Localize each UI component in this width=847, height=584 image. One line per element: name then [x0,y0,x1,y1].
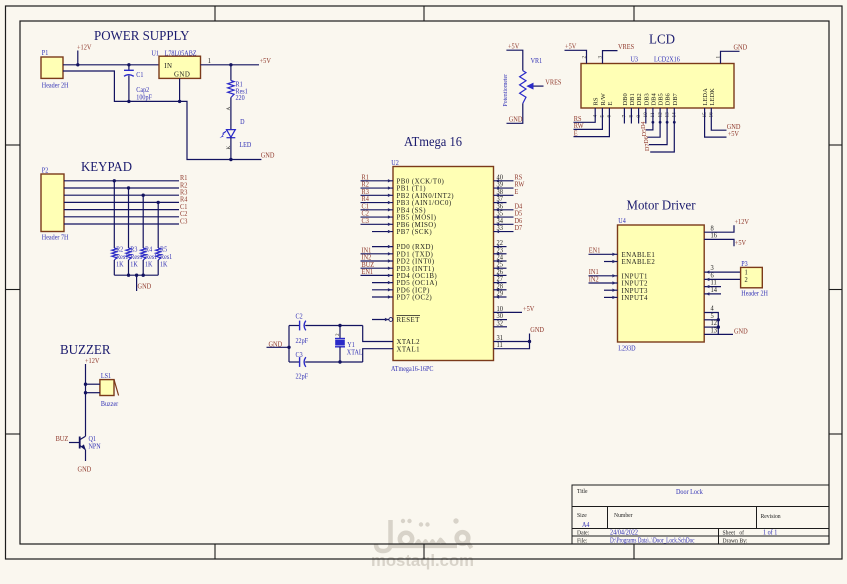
wire pin5 gnd [704,319,718,321]
svg-text:PB6 (MISO): PB6 (MISO) [397,222,437,229]
title block grid [572,485,829,544]
wire +5V to VR1 [506,50,522,70]
svg-text:LCD: LCD [649,33,675,48]
capacitor C3 [300,357,306,367]
svg-text:C3: C3 [362,218,370,225]
svg-text:E: E [515,189,519,196]
wire net R4 to pin PB3 [361,202,394,204]
wire pin 31 [494,341,530,343]
regulator U1 body [159,56,201,78]
svg-text:GND: GND [733,44,747,51]
wire pin 34 net D6 [494,223,514,225]
svg-text:GND: GND [261,152,275,159]
svg-text:U4: U4 [618,218,626,226]
svg-text:+12V: +12V [735,218,750,225]
svg-text:D:\Programs Data\..\Door_Lock.: D:\Programs Data\..\Door_Lock.SchDoc [610,537,695,544]
wire to resistor R5 [157,202,159,248]
pin arrow 23 [496,252,500,255]
wire keypad C3 [64,223,179,225]
svg-text:31: 31 [496,335,502,342]
svg-text:+12V: +12V [85,357,100,364]
pin arrow 37 [496,201,500,204]
svg-text:11: 11 [710,280,716,287]
svg-text:RESET: RESET [397,317,421,324]
wire D7 [650,108,674,152]
pin arrow INPUT4 [612,296,616,299]
wire net BUZ to pin PD3 [361,267,394,269]
pin arrow PD1 [388,252,392,255]
svg-text:NPN: NPN [89,443,101,451]
junction LS1 pin2 [84,391,87,394]
pin arrow INPUT1 [612,274,616,277]
wire R1 to LED [230,98,232,130]
wire E [574,108,610,137]
svg-text:+12V: +12V [77,44,92,51]
svg-text:EN1: EN1 [589,247,601,254]
wire VR1 to GND [507,103,523,123]
wire +12V drop [77,51,79,65]
svg-text:Cap2: Cap2 [136,87,149,95]
wire BUZ to Q1 base [69,442,80,444]
svg-text:10: 10 [496,306,503,313]
connector P2 [41,174,64,232]
svg-text:C2: C2 [296,313,303,321]
pin stub PD5 [372,282,393,284]
pin stub 22 [494,246,507,248]
junction keypad R4 [157,201,160,204]
svg-text:16: 16 [710,232,717,239]
svg-text:Drawn By:: Drawn By: [723,538,748,544]
pin stub PD0 [372,246,393,248]
junction gnd pin12 [717,325,720,328]
svg-text:U1: U1 [152,50,159,58]
svg-text:GND: GND [530,327,544,334]
svg-text:Sheet of: Sheet of [723,529,745,536]
wire resistor R2 to bus [113,260,115,275]
svg-text:ATmega16-16PC: ATmega16-16PC [391,366,434,374]
junction U1 GND [178,100,181,103]
pin arrow 36 [496,208,500,211]
wire cap bus vertical [288,326,290,363]
svg-text:+5V: +5V [260,58,271,65]
svg-text:13: 13 [710,327,717,334]
svg-text:GND: GND [509,116,523,123]
wire P1 pin1 to U1 IN [63,64,159,66]
pin arrow 22 [496,245,500,248]
svg-text:DB3: DB3 [643,93,650,105]
pin stub 29 [494,296,507,298]
pin arrow PB6 [388,223,392,226]
wire +5V to LCD pin2 [565,50,587,63]
pin arrow PD4 [388,274,392,277]
svg-text:DB2: DB2 [636,93,643,105]
wire LEDK to GND [711,108,726,130]
svg-text:BUZ: BUZ [56,435,69,442]
svg-text:Q1: Q1 [89,436,96,444]
transistor Q1 [80,436,86,450]
pin arrow 28 [496,288,500,291]
capacitor C1 [124,65,134,102]
pin arrow 29 [496,295,500,298]
svg-text:INPUT1: INPUT1 [622,273,649,280]
svg-text:2: 2 [744,277,747,284]
pin stub PB7 [372,231,393,233]
svg-text:ATmega 16: ATmega 16 [404,135,462,150]
wire net R1 to pin PB0 [361,180,394,182]
junction Y1 top [338,324,341,327]
svg-text:Date:: Date: [577,530,590,536]
svg-text:GND: GND [78,466,92,473]
pin stub DB2 [638,108,640,124]
svg-text:D7: D7 [515,225,523,232]
svg-text:PD7 (OC2): PD7 (OC2) [397,295,433,302]
pin stub 27 [494,282,507,284]
pin arrow PD0 [388,245,392,248]
junction bus R4 [142,274,145,277]
svg-text:PD3 (INT1): PD3 (INT1) [397,266,435,273]
svg-text:GND: GND [138,283,152,290]
wire RS [574,108,596,122]
wire net C3 to pin PB6 [361,223,394,225]
wire net IN1 to INPUT1 [589,275,618,277]
wire D5 [647,108,660,137]
pin arrow 40 [496,179,500,182]
wire pin 11 to GND [494,334,530,349]
svg-text:RS: RS [593,97,600,105]
junction LS1 pin1 [84,383,87,386]
wire LED to GND [230,138,232,160]
pin arrow PB3 [388,201,392,204]
svg-text:Potentiometer: Potentiometer [503,74,509,107]
wire D4 [646,108,653,130]
svg-text:C1: C1 [136,72,143,80]
pin arrow 35 [496,215,500,218]
wire pin3 to P3 [704,271,740,273]
svg-text:1K: 1K [130,261,138,269]
pin stub 28 [494,289,507,291]
svg-text:+5V: +5V [508,43,519,50]
svg-text:PB5 (MOSI): PB5 (MOSI) [397,215,437,222]
wire Y1 top lead [339,326,341,339]
connector P3 [741,267,763,287]
wire to C3 [289,361,300,363]
pin stub INPUT3 [604,289,618,291]
svg-text:E: E [607,102,614,106]
pin arrow 27 [496,281,500,284]
wire resistor R4 to bus [142,260,144,275]
wire keypad R2 [64,187,179,189]
resistor R2 [112,248,117,260]
svg-text:Revision: Revision [761,514,781,520]
svg-text:Buzzer: Buzzer [101,400,119,408]
junction keypad R2 [127,186,130,189]
svg-text:PB1 (T1): PB1 (T1) [397,186,426,193]
svg-text:ENABLE2: ENABLE2 [622,259,656,266]
pin arrow 26 [496,274,500,277]
pin arrow PD7 [388,295,392,298]
svg-text:1: 1 [744,269,747,276]
svg-text:22pF: 22pF [296,373,309,381]
svg-text:DB4: DB4 [650,92,657,105]
wire pin8 to +12V [704,225,734,232]
pin arrow INPUT3 [612,289,616,292]
resistor R1 [228,81,234,98]
svg-text:E: E [574,130,578,137]
pin arrow PB1 [388,186,392,189]
pin arrow U4 right [706,270,710,273]
junction D7 stub [673,121,676,124]
capacitor C2 [300,321,306,331]
svg-text:P1: P1 [42,50,48,58]
wire to resistor R3 [128,188,130,248]
svg-text:mostaql.com: mostaql.com [371,551,474,570]
pin arrow RESET [385,318,389,321]
microcontroller U2 body [393,167,494,361]
pin arrow 24 [496,259,500,262]
pin arrow PB4 [388,208,392,211]
wire U1 out to +5V [201,64,260,66]
svg-text:D4: D4 [641,122,647,129]
wire resistor R3 to bus [128,260,130,275]
svg-text:GND: GND [174,72,190,79]
svg-text:D: D [240,119,245,127]
svg-text:PB2 (AIN0/INT2): PB2 (AIN0/INT2) [397,193,454,200]
svg-text:LED: LED [239,141,251,149]
junction D4 stub [652,121,655,124]
wire pin12 gnd [704,326,718,328]
pin arrow INPUT2 [612,281,616,284]
svg-text:+5V: +5V [523,306,534,313]
wire net IN1 to pin PD1 [361,253,394,255]
wire net EN1 to ENABLE1 [589,253,618,255]
pin stub 25 [494,267,507,269]
svg-text:U3: U3 [630,56,638,64]
pin arrow PB2 [388,194,392,197]
svg-text:D5: D5 [642,129,648,136]
svg-text:+5V: +5V [735,240,746,247]
pin stub ENABLE2 [604,261,618,263]
svg-text:L293D: L293D [618,345,635,353]
svg-text:P3: P3 [741,260,748,268]
svg-text:Header 7H: Header 7H [42,234,69,242]
wire pin 35 net D5 [494,216,514,218]
svg-text:PB0 (XCK/T0): PB0 (XCK/T0) [397,178,445,185]
wire LS1 pin1 [86,383,100,385]
svg-text:PD5 (OC1A): PD5 (OC1A) [397,280,438,287]
svg-text:Size: Size [577,513,587,519]
pin arrow U4 right [706,292,710,295]
pin stub INPUT4 [604,296,618,298]
pin stub RESET [372,319,389,321]
pin arrow 38 [496,194,500,197]
wire C2 to XTAL2 branch [305,325,363,327]
svg-text:PB7 (SCK): PB7 (SCK) [397,229,433,236]
svg-text:U2: U2 [391,160,398,168]
pin arrow 25 [496,267,500,270]
wire D6 [649,108,667,145]
wire keypad R4 [64,201,179,203]
svg-text:3: 3 [597,56,603,59]
resistor R4 [141,248,146,260]
svg-text:D6: D6 [644,136,650,143]
svg-text:POWER SUPPLY: POWER SUPPLY [94,29,190,44]
svg-text:Header 2H: Header 2H [42,82,69,90]
wire to C2 [289,325,300,327]
svg-text:BUZZER: BUZZER [60,343,111,358]
wire pin 39 net RW [494,187,514,189]
wire to R1 [230,65,232,81]
crystal Y1 [335,339,345,347]
pin stub 14 [704,293,721,295]
pin arrow U4 right [706,285,710,288]
wire pin16 to +5V [704,239,734,246]
wire C3 to XTAL1 branch [305,361,363,363]
pin stub 30 [494,319,508,321]
svg-text:2: 2 [581,56,587,59]
pin arrow ENABLE1 [612,253,616,256]
svg-text:GND: GND [734,328,748,335]
svg-text:KEYPAD: KEYPAD [81,160,132,175]
svg-text:XTAL: XTAL [347,349,363,357]
svg-text:Header 2H: Header 2H [741,290,768,298]
junction D5 stub [659,121,662,124]
wire net IN2 to INPUT2 [589,282,618,284]
svg-text:Motor Driver: Motor Driver [627,199,696,214]
svg-text:L78L05ABZ: L78L05ABZ [165,50,197,58]
wire RW [574,108,603,129]
svg-text:D7: D7 [645,144,651,151]
wire keypad R1 [64,180,179,182]
junction Y1 bottom [338,360,341,363]
wire to resistor R2 [113,181,115,248]
svg-text:PD2 (INT0): PD2 (INT0) [397,259,435,266]
buzzer LS1 diagonal [114,380,119,396]
pin stub PD7 [372,296,393,298]
svg-text:ENABLE1: ENABLE1 [622,252,656,259]
junction C1 top [127,63,130,66]
svg-text:DB7: DB7 [672,92,679,105]
VR1 wiper arrow [526,83,543,90]
svg-text:100pF: 100pF [136,94,152,102]
connector P1 [41,57,63,78]
svg-text:+5V: +5V [565,43,576,50]
buzzer LS1 body [100,380,114,396]
svg-text:Number: Number [614,513,633,519]
svg-text:11: 11 [496,342,502,349]
wire net IN2 to pin PD2 [361,260,394,262]
svg-text:24/04/2022: 24/04/2022 [610,529,638,536]
svg-text:Title: Title [577,489,588,495]
wire net C1 to pin PB4 [361,209,394,211]
pin arrow 39 [496,186,500,189]
svg-text:Door Lock: Door Lock [676,489,703,496]
wire to resistor R4 [142,195,144,248]
junction C1 bottom [127,100,130,103]
svg-text:LS1: LS1 [101,372,111,380]
svg-text:PB4 (SS): PB4 (SS) [397,207,426,214]
wire resistor R5 to bus [157,260,159,275]
junction cap bus [287,346,290,349]
svg-text:INPUT3: INPUT3 [622,288,649,295]
svg-text:12: 12 [710,320,716,327]
resistor R5 [156,248,161,260]
junction keypad R3 [142,194,145,197]
pin arrow 34 [496,223,500,226]
pin arrow PB5 [388,215,392,218]
wire Q1 emitter to GND [85,450,87,461]
wire GND to LCD pin1 [721,51,740,63]
wire net C2 to pin PB5 [361,216,394,218]
pin stub 32 [494,326,508,328]
svg-text:File:: File: [577,538,588,544]
svg-text:PB3 (AIN1/OC0): PB3 (AIN1/OC0) [397,200,452,207]
junction bus R3 [127,274,130,277]
LCD module U3 body [581,64,734,109]
svg-text:PD1 (TXD): PD1 (TXD) [397,251,434,258]
svg-text:PD6 (ICP): PD6 (ICP) [397,287,430,294]
svg-text:14: 14 [710,287,717,294]
svg-text:IN: IN [164,63,172,70]
wire +12V to Q1 collector [85,364,87,436]
svg-text:1K: 1K [160,261,168,269]
junction R1 top [229,63,232,66]
pin arrow PD2 [388,259,392,262]
svg-text:VRES: VRES [545,79,561,86]
wire pin6 to P3 [704,278,740,280]
svg-text:32: 32 [496,320,502,327]
svg-text:XTAL2: XTAL2 [397,339,421,346]
watermark mostaql logo [376,518,472,551]
pin stub PD6 [372,289,393,291]
pin arrow 33 [496,230,500,233]
wire to XTAL1 pin [363,349,393,362]
wire pin 40 net RS [494,180,514,182]
pin stub 24 [494,260,507,262]
svg-text:30: 30 [496,313,503,320]
svg-text:P2: P2 [42,167,48,175]
pin stub 37 [494,202,507,204]
svg-text:2: 2 [335,333,341,336]
svg-text:C3: C3 [296,352,304,360]
wire pin 33 net D7 [494,231,514,233]
wire pin13 to GND [704,333,733,335]
pin arrow U4 right [706,278,710,281]
svg-text:LCD2X16: LCD2X16 [654,56,680,64]
wire net R2 to pin PB1 [361,187,394,189]
wire pin 38 net E [494,194,514,196]
resistor R3 [126,248,131,260]
wire VRES to LCD pin3 [603,51,618,64]
svg-text:LEDK: LEDK [709,88,716,106]
wire pin4 gnd [704,313,718,335]
wire bus to GND [136,275,138,291]
svg-text:DB5: DB5 [658,93,665,105]
wire LS1 pin2 [86,392,100,394]
wire pin 10 to +5V [494,311,523,313]
wire net R3 to pin PB2 [361,194,394,196]
pin arrow PD5 [388,281,392,284]
pin arrow PB0 [388,179,392,182]
wire keypad C1 [64,209,179,211]
wire keypad C2 [64,216,179,218]
wire P1 pin2 gnd run [63,71,261,160]
svg-text:220: 220 [236,95,246,103]
pin arrow PB7 [388,230,392,233]
svg-text:R/W: R/W [600,92,607,105]
svg-text:A: A [226,107,232,111]
pin stub DB3 [645,108,647,124]
pin stub DB0 [623,108,625,124]
